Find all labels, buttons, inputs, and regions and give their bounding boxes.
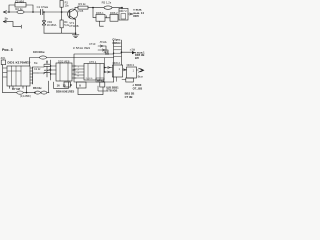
svg-text:ВП: ВП <box>135 56 139 60</box>
svg-text:C2 910: C2 910 <box>15 0 24 4</box>
svg-text:R8 10к: R8 10к <box>33 86 42 90</box>
svg-text:R3 2к: R3 2к <box>78 2 86 6</box>
svg-text:Вых: Вых <box>138 74 144 78</box>
svg-text:СТ10: СТ10 <box>89 42 96 46</box>
svg-text:100 КОм: 100 КОм <box>33 50 44 54</box>
svg-text:ВТВ ЮВ: ВТВ ЮВ <box>106 89 117 93</box>
svg-text:КС156А: КС156А <box>47 23 57 27</box>
svg-text:1,5 В: 1,5 В <box>77 9 83 13</box>
svg-text:16: 16 <box>57 84 60 88</box>
svg-text:DD6.3: DD6.3 <box>127 63 135 67</box>
svg-text:R2 3к: R2 3к <box>15 7 23 11</box>
svg-text:С2 22: С2 22 <box>34 68 41 71</box>
svg-text:НР-К2: НР-К2 <box>97 80 105 83</box>
svg-text:DD6 К561ЛЕ5: DD6 К561ЛЕ5 <box>56 89 75 93</box>
svg-text:DD1 К176ИЕ5: DD1 К176ИЕ5 <box>7 60 31 64</box>
svg-text:15: 15 <box>63 84 66 88</box>
svg-text:(0,125Вт): (0,125Вт) <box>20 94 31 98</box>
svg-text:R5 1,2к: R5 1,2к <box>102 0 112 4</box>
svg-text:DD5: DD5 <box>133 14 139 18</box>
svg-text:К 5б1А ЛЕ9: К 5б1А ЛЕ9 <box>73 46 90 50</box>
svg-text:DD7.2: DD7.2 <box>120 10 128 13</box>
svg-text:DD5.1: DD5.1 <box>112 41 120 45</box>
svg-text:ZQ1: ZQ1 <box>1 57 6 60</box>
svg-text:СТ ЗВ: СТ ЗВ <box>125 95 133 99</box>
svg-text:ВВЗ 2В: ВВЗ 2В <box>125 92 135 96</box>
svg-text:DD6.2: DD6.2 <box>113 61 121 65</box>
svg-text:с ЮОХ: с ЮОХ <box>133 83 142 87</box>
svg-text:C1 0,5мк: C1 0,5мк <box>37 5 49 9</box>
svg-text:R7 1М: R7 1М <box>12 87 21 91</box>
svg-text:Рис. 3: Рис. 3 <box>2 48 13 52</box>
svg-text:DD6.1: DD6.1 <box>96 11 104 15</box>
svg-text:КТ315Б: КТ315Б <box>69 24 78 28</box>
svg-text:ЛУНЬ: ЛУНЬ <box>100 40 107 44</box>
svg-text:2в 4: 2в 4 <box>104 51 109 54</box>
svg-text:ОТ...ВВ: ОТ...ВВ <box>133 87 143 91</box>
svg-text:DD6.2: DD6.2 <box>110 11 118 15</box>
svg-text:2 4 8 6: 2 4 8 6 <box>86 78 93 80</box>
svg-text:Вх: Вх <box>5 16 9 20</box>
svg-text:Сброс: Сброс <box>112 38 121 42</box>
svg-text:DD2 ИЕ8: DD2 ИЕ8 <box>58 59 70 63</box>
svg-text:СТ6.1: СТ6.1 <box>89 60 97 64</box>
